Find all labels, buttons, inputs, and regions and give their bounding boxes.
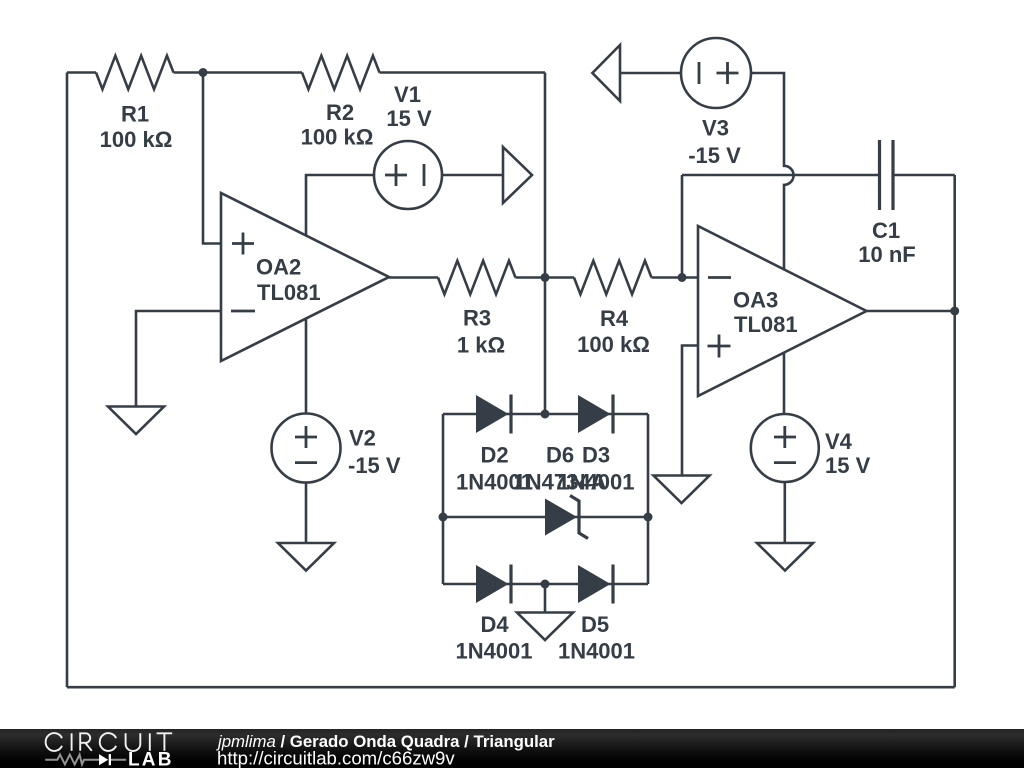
ground for V4 (757, 543, 813, 571)
wire right outer rail (953, 175, 956, 687)
svg-text:V4: V4 (825, 429, 853, 454)
V4 plus symbol (774, 426, 796, 448)
wire OA3 negative supply to V4 (783, 351, 786, 414)
wire OA3 feedback vertical (681, 175, 684, 278)
op-amp OA3 plus marker (708, 335, 731, 358)
CircuitLab logo diode (99, 754, 111, 765)
node dot diode top row (541, 410, 550, 419)
svg-text:R2: R2 (326, 100, 354, 125)
wire diode network to ground (544, 584, 547, 613)
wire OA2 output (389, 276, 438, 279)
V1 plus symbol (385, 164, 407, 186)
diode D5 (578, 565, 613, 604)
svg-text:R1: R1 (121, 102, 149, 127)
svg-text:D2: D2 (480, 443, 508, 468)
diode network right rail (647, 414, 650, 584)
capacitor C1 (880, 140, 894, 210)
svg-text:-15 V: -15 V (688, 143, 741, 168)
node dot diode bottom row (541, 580, 550, 589)
wire left outer rail (66, 73, 69, 688)
voltage source V2 (272, 414, 341, 483)
wire V3 to OA3 positive supply with hop (751, 73, 794, 269)
resistor R3 (438, 261, 516, 295)
svg-text:R3: R3 (463, 306, 491, 331)
V3 minus bar (698, 62, 701, 84)
diode network left rail (442, 414, 445, 584)
wire OA2 negative supply to V2 (305, 319, 308, 414)
svg-text:100 kΩ: 100 kΩ (100, 127, 173, 152)
node dot OA3 inverting input (678, 273, 687, 282)
op-amp OA2 minus marker (231, 310, 255, 313)
wire top rail mid segment (174, 71, 303, 74)
diode network top row wire (443, 413, 648, 416)
svg-text:V2: V2 (349, 426, 376, 451)
diode D2 (476, 395, 511, 434)
net flag at V1 (503, 147, 532, 203)
node dot OA3 output (950, 307, 959, 316)
node dot diode mid row right (644, 513, 653, 522)
wire OA2 noninverting input (203, 73, 221, 244)
wire OA2 positive supply to V1 (306, 175, 374, 236)
wire flag to V3 (620, 72, 681, 75)
wire OA2 inverting input (136, 311, 221, 407)
svg-text:V1: V1 (394, 82, 421, 107)
svg-text:D6: D6 (546, 443, 574, 468)
V1 minus bar (423, 164, 426, 186)
svg-text:TL081: TL081 (734, 312, 798, 337)
V3 plus symbol (717, 62, 739, 84)
voltage source V4 (751, 414, 819, 482)
wire mid vertical feedback x=545 (544, 73, 547, 415)
voltage source V3 (681, 38, 751, 108)
wire OA3 noninverting input to ground (682, 346, 698, 476)
ground for diode network (517, 613, 573, 641)
svg-text:OA2: OA2 (256, 255, 301, 280)
ground for OA3 noninverting input (654, 476, 710, 504)
node dot diode mid row left (439, 513, 448, 522)
op-amp OA3 minus marker (708, 276, 731, 279)
svg-text:R4: R4 (600, 306, 629, 331)
op-amp OA2 (221, 193, 389, 361)
ground for OA2 inverting input (108, 407, 164, 435)
diode network bottom row wire (443, 583, 648, 586)
svg-text:1N4001: 1N4001 (455, 639, 532, 664)
CircuitLab logo wordmark CIRCUIT (46, 733, 173, 751)
svg-text:OA3: OA3 (733, 288, 778, 313)
resistor R4 (574, 261, 652, 295)
wire R4 to OA3 inverting input (652, 276, 699, 279)
svg-text:1N4001: 1N4001 (558, 639, 635, 664)
svg-text:D3: D3 (582, 443, 610, 468)
wire OA3 output (866, 310, 955, 313)
diode network middle row wire (443, 516, 648, 519)
footer bar (0, 729, 1024, 768)
svg-text:LAB: LAB (128, 750, 174, 768)
wire C1 to right rail (893, 174, 955, 177)
svg-text:15 V: 15 V (825, 453, 871, 478)
svg-text:1 kΩ: 1 kΩ (457, 333, 505, 358)
svg-text:D5: D5 (581, 612, 609, 637)
svg-text:100 kΩ: 100 kΩ (577, 332, 650, 357)
svg-text:C1: C1 (872, 218, 900, 243)
diode D3 (578, 395, 613, 434)
svg-text:100 kΩ: 100 kΩ (301, 125, 374, 150)
wire feedback top to C1 (682, 174, 880, 177)
svg-text:15 V: 15 V (386, 106, 432, 131)
svg-text:-15 V: -15 V (348, 453, 401, 478)
V4 minus symbol (774, 461, 796, 464)
wire V2 to ground (305, 483, 308, 544)
node dot R3-R4 junction (541, 273, 550, 282)
svg-text:http://circuitlab.com/c66zw9v: http://circuitlab.com/c66zw9v (217, 748, 455, 769)
resistor R2 (302, 56, 380, 90)
op-amp OA3 (698, 226, 867, 396)
node dot R1-R2 junction (199, 68, 208, 77)
svg-text:D4: D4 (480, 612, 509, 637)
svg-text:V3: V3 (702, 116, 729, 141)
svg-text:1N4001: 1N4001 (557, 470, 634, 495)
voltage source V1 (374, 141, 442, 209)
wire bottom outer rail (67, 686, 955, 689)
wire V4 to ground (783, 482, 786, 543)
svg-text:TL081: TL081 (257, 280, 321, 305)
wire V1 to flag (442, 174, 503, 177)
net flag at V3 (592, 45, 620, 101)
V2 minus symbol (295, 461, 317, 464)
V2 plus symbol (295, 426, 317, 448)
op-amp OA2 plus marker (232, 233, 254, 255)
CircuitLab logo squiggle (45, 755, 126, 765)
zener diode D6 (545, 496, 588, 539)
resistor R1 (96, 56, 174, 90)
svg-text:10 nF: 10 nF (858, 242, 915, 267)
ground for V2 (278, 543, 334, 571)
wire top rail right segment (380, 71, 546, 74)
wire top rail left segment (67, 71, 96, 74)
wire R3 to node (516, 276, 575, 279)
diode D4 (476, 565, 511, 604)
